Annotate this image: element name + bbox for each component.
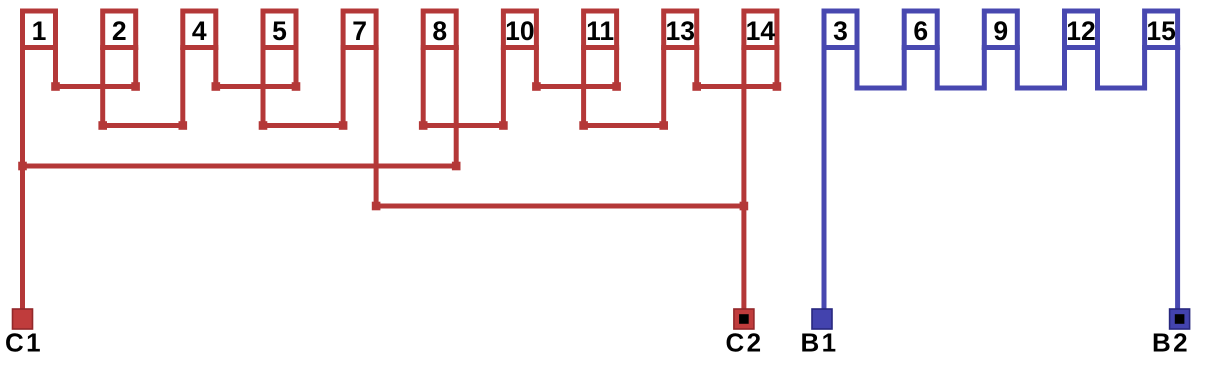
wire connector coil 5 left to coil 7 left [263,123,343,128]
wire connector coil 8 left to coil 10 left [423,123,503,128]
wire connector coil 10 right to coil 11 right [536,84,616,89]
coil 1 box [23,11,56,50]
svg-text:10: 10 [505,16,534,46]
svg-text:9: 9 [993,16,1008,46]
junction coil 5 left [259,121,268,130]
wire coil 8 left lead to level B [421,48,426,126]
terminal B1 square [812,309,832,329]
terminal C2 square [734,309,754,329]
wire coil 2 right lead to level A [133,48,138,87]
svg-text:1: 1 [32,16,47,46]
svg-text:14: 14 [746,16,776,46]
junction coil 13 right [692,82,701,91]
coil 9 box [984,11,1017,50]
wire coil 7 left lead to level B [341,48,346,126]
coil 8 box [423,11,456,50]
svg-text:B2: B2 [1152,328,1190,358]
coil 15 box [1145,11,1178,50]
wire coil 1 left lead down to C1 [20,48,25,310]
wire coil 4 left lead to level B [180,48,185,126]
wire connector coil 1 right to coil 2 right [56,84,136,89]
coil 10 box [503,11,536,50]
svg-text:5: 5 [272,16,287,46]
coil 14 divider [741,45,779,50]
svg-text:C1: C1 [5,328,43,358]
svg-text:15: 15 [1146,16,1175,46]
wire coil 4 right lead to level A [213,48,218,87]
terminal B2 polarity mark [1175,314,1185,324]
svg-text:13: 13 [665,16,694,46]
terminal C2 polarity mark [739,314,749,324]
coil 7 box [343,11,376,50]
junction coil 13 left [659,121,668,130]
wire bus C1 node to coil 8 right [23,164,457,169]
coil 9 divider [982,45,1020,50]
coil 4 box [183,11,216,50]
wire coil 1 right lead to level A [53,48,58,87]
svg-text:7: 7 [352,16,367,46]
junction coil 2 right [131,82,140,91]
wire connector coil 4 right to coil 5 right [216,84,296,89]
coil 11 divider [581,45,619,50]
junction coil 4 left [179,121,188,130]
svg-text:2: 2 [112,16,127,46]
svg-text:3: 3 [833,16,848,46]
junction coil 10 left [499,121,508,130]
junction node C2 tap [740,202,749,211]
coil 14 box [744,11,777,50]
coil 10 divider [501,45,539,50]
coil 4 divider [180,45,218,50]
wire coil 13 right lead to level A [694,48,699,87]
junction coil 7 left [339,121,348,130]
coil 12 box [1065,11,1098,50]
svg-text:C2: C2 [725,328,763,358]
junction node C1 tap [18,162,27,171]
coil 6 box [904,11,937,50]
coil 5 box [263,11,296,50]
wire serpentine coil 9 right to coil 12 left [1017,48,1064,89]
wire connector coil 2 left to coil 4 left [103,123,183,128]
coil 3 box [824,11,857,50]
wire coil 5 right lead to level A [294,48,299,87]
coil 13 divider [661,45,699,50]
wire serpentine coil 3 right to coil 6 left [857,48,904,89]
junction coil 11 right [612,82,621,91]
wire bus coil 7 right to coil 14 left (C2 node) [376,204,744,209]
junction coil 8 right end [452,162,461,171]
svg-text:8: 8 [432,16,447,46]
svg-text:11: 11 [586,16,614,46]
wire coil 5 left lead to level B [261,48,266,126]
junction coil 2 left [98,121,107,130]
junction coil 7 right end [372,202,381,211]
wire coil 11 left lead to level B [581,48,586,126]
svg-text:B1: B1 [800,328,838,358]
coil 2 box [103,11,136,50]
wire coil 3 left lead down to B1 [822,48,827,310]
coil 3 divider [822,45,860,50]
junction coil 5 right [292,82,301,91]
terminal C1 square [13,309,33,329]
wire coil 15 right lead down to B2 [1175,48,1180,310]
coil 1 divider [20,45,58,50]
junction coil 1 right [51,82,60,91]
wire coil 13 left lead to level B [661,48,666,126]
coil 6 divider [902,45,940,50]
junction coil 14 right [773,82,782,91]
coil 15 divider [1142,45,1180,50]
wire coil 8 right lead down to level C [454,48,459,167]
junction coil 11 left [579,121,588,130]
coil 5 divider [261,45,299,50]
wire coil 7 right lead down to level D [374,48,379,207]
junction coil 8 left [419,121,428,130]
wire coil 14 left lead down to C2 [741,48,746,310]
coil 8 divider [421,45,459,50]
terminal B2 square [1170,309,1190,329]
wire coil 14 right lead to level A [774,48,779,87]
coil 7 divider [341,45,379,50]
svg-text:6: 6 [913,16,928,46]
coil 12 divider [1062,45,1100,50]
svg-text:12: 12 [1066,16,1095,46]
coil 2 divider [100,45,138,50]
wire coil 11 right lead to level A [614,48,619,87]
wire coil 10 right lead to level A [534,48,539,87]
svg-text:4: 4 [192,16,207,46]
wire coil 10 left lead to level B [501,48,506,126]
coil 11 box [584,11,617,50]
wire serpentine coil 12 right to coil 15 left [1098,48,1145,89]
wire coil 2 left lead to level B [100,48,105,126]
wire serpentine coil 6 right to coil 9 left [937,48,984,89]
junction coil 10 right [532,82,541,91]
wire connector coil 11 left to coil 13 left [584,123,664,128]
junction coil 4 right [212,82,221,91]
coil 13 box [664,11,697,50]
wire connector coil 13 right to coil 14 right [697,84,777,89]
